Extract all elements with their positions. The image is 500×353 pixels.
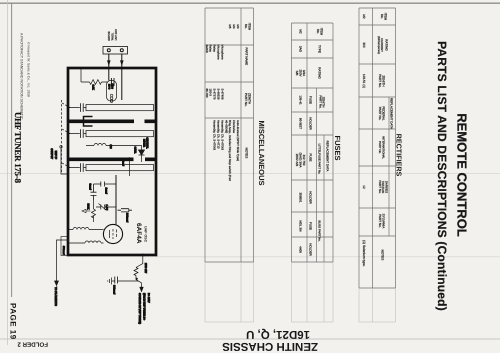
mid fold line <box>156 256 500 258</box>
svg-text:M2: M2 <box>299 29 303 34</box>
svg-text:PART NAME: PART NAME <box>245 48 249 66</box>
svg-text:80-382T: 80-382T <box>299 118 303 129</box>
svg-text:No.: No. <box>316 29 320 34</box>
svg-text:No.: No. <box>380 14 384 19</box>
svg-text:(Milliamperes): (Milliamperes) <box>377 36 381 54</box>
FUSES table grid <box>292 23 334 262</box>
svg-text:1mmf: 1mmf <box>105 188 108 195</box>
variable capacitor 3 <box>68 163 86 172</box>
partition shield 1 <box>68 120 156 124</box>
svg-text:3mmf: 3mmf <box>89 184 92 191</box>
svg-text:12: 12 <box>362 185 366 189</box>
plate coil L3 <box>68 228 104 230</box>
svg-text:PART No.: PART No. <box>378 74 382 88</box>
svg-text:300: 300 <box>362 42 366 47</box>
svg-text:RATING: RATING <box>385 39 389 51</box>
heater coil L4 <box>68 241 104 243</box>
svg-text:FUSE: FUSE <box>309 153 313 161</box>
svg-text:7mmf: 7mmf <box>122 160 125 166</box>
page bottom edge line <box>6 0 8 345</box>
tuning gang dashed link <box>61 100 63 172</box>
faint fold through schematic <box>0 173 500 175</box>
svg-text:BUSS PART No.: BUSS PART No. <box>318 220 322 242</box>
svg-text:3AG: 3AG <box>299 46 303 53</box>
tuned line resonator 1 <box>86 105 154 111</box>
svg-text:358901: 358901 <box>299 192 303 202</box>
svg-text:REPLACEMENT DATA: REPLACEMENT DATA <box>390 98 394 129</box>
B+ feed arrow <box>140 287 144 292</box>
partition shield 2 <box>68 158 156 162</box>
antenna coil loop <box>107 81 117 102</box>
osc capacitor C5 <box>118 209 133 212</box>
filament line <box>55 240 68 286</box>
svg-text:PART No.: PART No. <box>318 95 322 108</box>
RECTIFIERS table grid <box>359 8 396 288</box>
svg-text:2700 1W: 2700 1W <box>144 263 147 274</box>
svg-text:FUSES: FUSES <box>333 135 342 160</box>
svg-text:4408: 4408 <box>299 246 303 253</box>
svg-text:BOARD: BOARD <box>107 31 110 41</box>
svg-text:NPO: NPO <box>107 84 110 89</box>
svg-text:B+ 135V: B+ 135V <box>147 293 150 303</box>
svg-text:M5: M5 <box>228 24 232 28</box>
svg-text:S/B: S/B <box>295 71 299 76</box>
svg-text:PAGE 19: PAGE 19 <box>9 303 18 340</box>
svg-text:UHF OSC: UHF OSC <box>144 226 148 243</box>
svg-text:FUSE: FUSE <box>309 96 313 104</box>
filament feedthrough box <box>61 237 68 256</box>
osc capacitor C3 <box>91 184 97 200</box>
svg-text:Switch: Switch <box>205 45 209 54</box>
mixer coil L2 <box>86 144 106 146</box>
svg-text:REMOTE CONTROL: REMOTE CONTROL <box>455 113 470 237</box>
mixer junction on shield <box>128 157 130 159</box>
svg-text:REPLACEMENT DATA: REPLACEMENT DATA <box>326 141 330 172</box>
coupling bracket <box>84 117 93 127</box>
svg-text:RATING: RATING <box>318 67 322 79</box>
svg-text:MDL 3/4: MDL 3/4 <box>299 220 303 232</box>
MISCELLANEOUS table grid <box>205 8 254 262</box>
ground <box>108 278 112 285</box>
osc trimmer C4 <box>96 204 116 211</box>
svg-text:136-41: 136-41 <box>299 95 303 105</box>
svg-text:UHF TUNER 175-8: UHF TUNER 175-8 <box>13 112 23 184</box>
svg-text:MIXER: MIXER <box>143 139 146 147</box>
svg-text:85-780: 85-780 <box>205 89 209 98</box>
svg-text:OUTPUT: OUTPUT <box>50 148 53 159</box>
oscillator tube V1 <box>103 224 122 243</box>
svg-text:103-51 (1): 103-51 (1) <box>362 74 366 88</box>
tuned line resonator 3 <box>86 165 154 171</box>
crystal mixer diode <box>106 146 145 163</box>
tuned line resonator 2 <box>86 131 154 137</box>
svg-text:A PHOTOFACT STANDARD NOTATION: A PHOTOFACT STANDARD NOTATION SCHEMATIC <box>20 33 24 120</box>
svg-text:© Howard W. Sams & Co., Inc. 1: © Howard W. Sams & Co., Inc. 1958 <box>27 42 31 97</box>
svg-text:FUSE: FUSE <box>309 222 313 230</box>
svg-text:TO FILAMENTS: TO FILAMENTS <box>54 287 57 306</box>
svg-text:PART No.: PART No. <box>378 214 382 228</box>
osc bus wire <box>115 175 117 224</box>
svg-text:1.5-7: 1.5-7 <box>105 205 108 211</box>
svg-text:16D21, Q, U: 16D21, Q, U <box>246 328 310 340</box>
right fold line <box>0 338 500 340</box>
B+ dropping resistor <box>134 256 143 287</box>
svg-text:HOLDER: HOLDER <box>309 117 313 130</box>
svg-text:RECTIFIERS: RECTIFIERS <box>395 134 404 177</box>
svg-text:M2: M2 <box>362 14 366 19</box>
svg-text:No.: No. <box>244 24 248 29</box>
svg-text:NOTES: NOTES <box>245 148 249 159</box>
svg-text:LITTELFUSE PART No.: LITTELFUSE PART No. <box>318 144 322 175</box>
svg-text:6AF4A: 6AF4A <box>135 223 142 244</box>
variable capacitor 2 <box>68 129 86 138</box>
tuner shield box <box>68 68 156 255</box>
bypass capacitor <box>136 278 138 280</box>
svg-text:NOTES: NOTES <box>381 250 385 261</box>
svg-text:(1) Selenium type.: (1) Selenium type. <box>362 240 366 267</box>
svg-text:Assembly, Ch. S-47043: Assembly, Ch. S-47043 <box>213 120 217 151</box>
svg-text:HOLDER: HOLDER <box>309 243 313 256</box>
input blocking capacitor C1 <box>111 78 114 86</box>
svg-text:PART No.: PART No. <box>378 107 382 121</box>
svg-text:PART No.: PART No. <box>244 93 248 107</box>
svg-text:CATH.: CATH. <box>134 147 137 154</box>
svg-text:ZENITH CHASSIS: ZENITH CHASSIS <box>222 340 318 352</box>
svg-text:SOURCE ON VHF TUNER): SOURCE ON VHF TUNER) <box>138 293 141 324</box>
svg-text:TYPE: TYPE <box>318 45 322 53</box>
B+ junction <box>141 254 144 257</box>
svg-text:500K: 500K <box>87 204 90 210</box>
svg-text:200mmf: 200mmf <box>126 213 129 222</box>
svg-text:(FROM UHF TUNER B+: (FROM UHF TUNER B+ <box>143 293 146 321</box>
svg-text:MISCELLANEOUS: MISCELLANEOUS <box>257 120 266 185</box>
svg-text:250V A/B: 250V A/B <box>295 154 299 167</box>
grid resistor 500K <box>92 200 96 222</box>
osc capacitor C2 <box>94 182 117 187</box>
svg-text:FOLDER 2: FOLDER 2 <box>17 341 48 348</box>
UHF antenna terminal board <box>103 47 128 55</box>
svg-text:UHF IF: UHF IF <box>54 151 57 160</box>
IF output tap <box>61 148 68 174</box>
antenna lead wires <box>109 54 122 100</box>
svg-text:800mmf: 800mmf <box>113 285 116 294</box>
svg-text:500mmf: 500mmf <box>62 246 65 255</box>
antenna resistor R1 <box>81 69 108 85</box>
svg-text:6.8K: 6.8K <box>92 85 95 90</box>
svg-text:HOLDER: HOLDER <box>309 191 313 204</box>
page left edge scan line <box>0 2 500 4</box>
footer rule <box>11 3 13 297</box>
svg-text:PARTS LIST AND DESCRIPTIONS (C: PARTS LIST AND DESCRIPTIONS (Continued) <box>435 41 449 311</box>
svg-text:PART No.: PART No. <box>378 141 382 154</box>
svg-text:PART No.: PART No. <box>378 180 382 193</box>
variable capacitor 1 <box>68 103 86 112</box>
